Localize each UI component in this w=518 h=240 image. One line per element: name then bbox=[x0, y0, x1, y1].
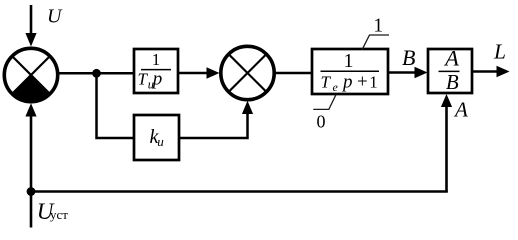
svg-text:0: 0 bbox=[317, 112, 326, 132]
svg-text:p: p bbox=[151, 69, 163, 90]
summing junction SJ2 bbox=[221, 46, 274, 99]
svg-text:1: 1 bbox=[344, 50, 354, 72]
svg-text:U: U bbox=[47, 6, 63, 28]
svg-text:p: p bbox=[341, 72, 353, 93]
wire block2 to divider with arrowhead bbox=[388, 67, 428, 78]
wire SJ1 to block1 bbox=[58, 72, 135, 75]
svg-text:e: e bbox=[333, 80, 339, 94]
wire bottom feedback line bbox=[31, 190, 448, 193]
svg-text:и: и bbox=[157, 134, 164, 149]
svg-text:1: 1 bbox=[369, 73, 378, 92]
wire kи output up to SJ2 bbox=[179, 101, 253, 138]
wire SJ2 to block2 bbox=[275, 72, 314, 75]
svg-text:L: L bbox=[493, 40, 506, 64]
svg-text:A: A bbox=[443, 46, 459, 71]
svg-text:1: 1 bbox=[373, 15, 383, 36]
node Uуст label bbox=[37, 199, 68, 224]
junction dot bottom bbox=[27, 187, 36, 196]
wire A input vertical bbox=[441, 94, 452, 192]
summing junction SJ1 bbox=[4, 48, 57, 101]
block divider A/B bbox=[428, 46, 472, 95]
limiter lower limit line bbox=[313, 94, 336, 109]
svg-text:B: B bbox=[402, 45, 415, 70]
block U2 1/(Te p + 1) bbox=[312, 49, 388, 94]
wire Uуст input up to SJ1 bbox=[25, 103, 36, 227]
block U1 1/(Tи p) bbox=[134, 49, 178, 93]
svg-text:1: 1 bbox=[152, 50, 161, 69]
wire U input bbox=[25, 5, 36, 47]
svg-text:+: + bbox=[357, 72, 368, 93]
block kи bbox=[134, 115, 179, 160]
wire block1 to SJ2 bbox=[178, 67, 220, 78]
junction dot bbox=[92, 69, 101, 78]
svg-text:B: B bbox=[446, 70, 459, 94]
limiter upper limit line bbox=[362, 35, 389, 50]
wire output L bbox=[472, 66, 510, 77]
svg-text:T: T bbox=[321, 73, 332, 92]
svg-text:A: A bbox=[453, 98, 468, 122]
svg-text:уст: уст bbox=[50, 207, 68, 222]
wire junction dot down to block kи bbox=[97, 73, 135, 138]
